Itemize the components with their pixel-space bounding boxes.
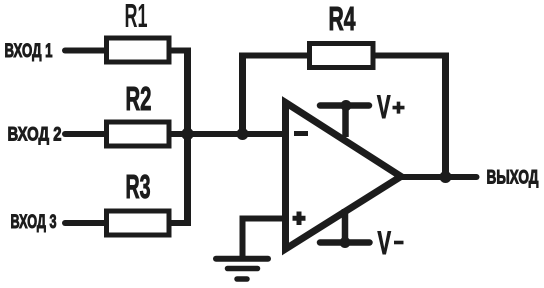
label V+ xyxy=(377,89,405,125)
svg-text:ВХОД 3: ВХОД 3 xyxy=(11,212,57,233)
wire input 1 xyxy=(65,48,106,54)
label V- xyxy=(378,225,404,261)
V- stub xyxy=(342,209,349,243)
svg-text:ВЫХОД: ВЫХОД xyxy=(487,168,539,189)
wire R3 to bus xyxy=(169,220,188,226)
svg-text:R3: R3 xyxy=(126,168,151,205)
resistor R4 xyxy=(310,44,374,68)
junction dot bus node xyxy=(181,128,193,140)
wire output xyxy=(400,174,477,180)
op-amp plus sign xyxy=(293,212,306,226)
svg-text:ВХОД 2: ВХОД 2 xyxy=(8,124,62,145)
V- rail bar xyxy=(320,239,370,246)
wire feedback right vertical xyxy=(442,53,449,178)
junction dot node A feedback tap xyxy=(237,128,249,140)
wire summing bus vertical xyxy=(184,48,191,227)
wire input 3 xyxy=(65,220,106,226)
svg-text:V: V xyxy=(377,89,391,125)
wire feedback left vertical xyxy=(239,56,246,135)
V+ rail bar xyxy=(320,102,369,109)
svg-text:R2: R2 xyxy=(126,80,152,117)
wire to inverting input xyxy=(169,131,286,137)
junction dot V+ xyxy=(341,100,352,111)
wire input 2 xyxy=(65,131,106,137)
ground bar 3 xyxy=(237,276,247,282)
op-amp minus sign xyxy=(294,131,308,136)
junction dot output node xyxy=(440,171,452,183)
svg-text:V: V xyxy=(378,225,392,261)
svg-text:R4: R4 xyxy=(329,0,356,37)
svg-text:ВХОД 1: ВХОД 1 xyxy=(5,41,53,62)
ground bar 1 xyxy=(216,256,268,262)
junction dot V- xyxy=(340,237,351,248)
wire noninverting input to ground xyxy=(243,219,287,259)
wire feedback top right horizontal xyxy=(374,53,450,59)
wire feedback top left horizontal xyxy=(239,53,307,59)
resistor R3 xyxy=(107,211,170,235)
svg-text:R1: R1 xyxy=(125,0,148,34)
ground bar 2 xyxy=(228,266,258,272)
resistor R2 xyxy=(107,122,170,146)
op-amp U1 triangle xyxy=(286,103,402,250)
wire R1 to bus xyxy=(169,48,188,54)
V+ stub xyxy=(342,106,349,138)
resistor R1 xyxy=(107,38,170,62)
